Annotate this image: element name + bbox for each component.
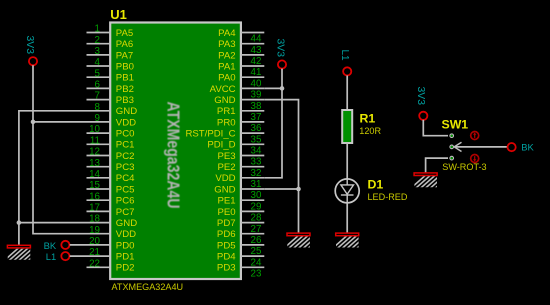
- svg-text:D1: D1: [368, 178, 384, 192]
- svg-text:PC3: PC3: [116, 162, 135, 173]
- svg-text:9: 9: [95, 113, 100, 124]
- svg-text:16: 16: [89, 191, 100, 202]
- svg-text:20: 20: [89, 236, 100, 247]
- svg-text:LED-RED: LED-RED: [368, 192, 408, 202]
- svg-text:PD7: PD7: [217, 218, 236, 229]
- svg-text:PE1: PE1: [217, 196, 235, 207]
- svg-text:3V3: 3V3: [415, 87, 426, 106]
- svg-text:PDI_D: PDI_D: [207, 140, 235, 151]
- svg-text:4: 4: [95, 57, 101, 68]
- svg-text:PA3: PA3: [218, 39, 235, 50]
- svg-text:14: 14: [89, 169, 100, 180]
- svg-text:PR1: PR1: [217, 106, 236, 117]
- svg-text:PD2: PD2: [116, 263, 135, 274]
- svg-text:ATXMEGA32A4U: ATXMEGA32A4U: [112, 282, 184, 292]
- svg-text:PC7: PC7: [116, 207, 135, 218]
- svg-text:8: 8: [95, 102, 101, 113]
- svg-text:13: 13: [89, 158, 100, 169]
- svg-text:PE3: PE3: [217, 151, 235, 162]
- svg-text:PA5: PA5: [116, 28, 133, 39]
- svg-text:PB3: PB3: [116, 95, 134, 106]
- svg-text:PA1: PA1: [218, 61, 235, 72]
- svg-text:L1: L1: [46, 251, 56, 262]
- svg-text:15: 15: [89, 180, 100, 191]
- svg-text:PR0: PR0: [217, 117, 236, 128]
- svg-text:PB2: PB2: [116, 84, 134, 95]
- svg-text:ATXMega32A4U: ATXMega32A4U: [164, 102, 184, 209]
- svg-text:23: 23: [251, 269, 262, 280]
- svg-text:5: 5: [95, 68, 101, 79]
- svg-text:2: 2: [95, 35, 100, 46]
- svg-text:PA4: PA4: [218, 28, 236, 39]
- svg-text:PE2: PE2: [217, 162, 235, 173]
- svg-text:VDD: VDD: [116, 117, 136, 128]
- svg-text:L1: L1: [339, 50, 350, 62]
- svg-text:PA6: PA6: [116, 39, 133, 50]
- svg-text:12: 12: [89, 147, 100, 158]
- svg-text:PB0: PB0: [116, 61, 134, 72]
- svg-text:PC6: PC6: [116, 196, 135, 207]
- svg-text:PA2: PA2: [218, 50, 235, 61]
- svg-text:PD1: PD1: [116, 252, 135, 263]
- svg-text:PC4: PC4: [116, 173, 135, 184]
- svg-text:PC2: PC2: [116, 151, 135, 162]
- svg-text:BK: BK: [44, 240, 57, 251]
- svg-text:GND: GND: [116, 218, 137, 229]
- svg-text:RST/PDI_C: RST/PDI_C: [185, 129, 235, 140]
- svg-text:PD3: PD3: [217, 263, 236, 274]
- svg-text:21: 21: [89, 247, 100, 258]
- svg-text:PA7: PA7: [116, 50, 133, 61]
- svg-text:VDD: VDD: [215, 173, 235, 184]
- svg-text:11: 11: [90, 135, 100, 146]
- svg-text:PD0: PD0: [116, 240, 135, 251]
- svg-text:PE0: PE0: [217, 207, 235, 218]
- svg-text:3: 3: [95, 46, 101, 57]
- svg-text:R1: R1: [360, 111, 376, 125]
- svg-text:PB1: PB1: [116, 73, 134, 84]
- svg-text:3V3: 3V3: [274, 39, 285, 58]
- svg-text:U1: U1: [110, 7, 127, 22]
- svg-text:PC5: PC5: [116, 184, 135, 195]
- svg-text:PC1: PC1: [116, 140, 135, 151]
- svg-text:22: 22: [89, 258, 100, 269]
- svg-text:BK: BK: [521, 141, 534, 152]
- svg-text:PC0: PC0: [116, 129, 135, 140]
- svg-text:1: 1: [95, 24, 100, 35]
- svg-text:GND: GND: [116, 106, 137, 117]
- svg-text:18: 18: [89, 214, 100, 225]
- svg-text:17: 17: [89, 203, 100, 214]
- svg-text:SW1: SW1: [442, 117, 469, 131]
- svg-text:GND: GND: [214, 184, 235, 195]
- svg-text:120R: 120R: [359, 126, 381, 136]
- svg-text:VDD: VDD: [116, 229, 136, 240]
- svg-text:PD6: PD6: [217, 229, 236, 240]
- svg-text:10: 10: [89, 124, 100, 135]
- svg-text:GND: GND: [214, 95, 235, 106]
- svg-text:3V3: 3V3: [24, 36, 35, 55]
- svg-text:7: 7: [95, 91, 100, 102]
- svg-text:PD4: PD4: [217, 252, 236, 263]
- svg-text:SW-ROT-3: SW-ROT-3: [442, 162, 486, 172]
- svg-text:PA0: PA0: [218, 73, 235, 84]
- svg-text:6: 6: [95, 80, 101, 91]
- svg-text:AVCC: AVCC: [210, 84, 236, 95]
- svg-text:PD5: PD5: [217, 240, 236, 251]
- svg-text:19: 19: [89, 225, 100, 236]
